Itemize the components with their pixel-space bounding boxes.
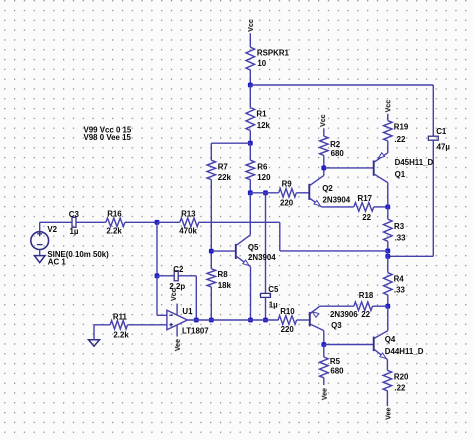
svg-text:12k: 12k <box>257 121 271 130</box>
label 12k <box>257 121 271 130</box>
label C3 <box>69 210 80 219</box>
node Q5base/R7/R8 <box>209 249 214 254</box>
label 2.2k <box>113 330 129 339</box>
label 18k <box>218 281 232 290</box>
wire <box>187 319 278 321</box>
wire <box>250 192 278 194</box>
svg-text:.33: .33 <box>394 285 406 294</box>
resistor R13 <box>157 218 280 227</box>
svg-text:R19: R19 <box>394 122 409 131</box>
svg-text:Vcc: Vcc <box>319 114 327 127</box>
svg-text:C5: C5 <box>268 285 279 294</box>
label 220 <box>280 198 294 207</box>
resistor R18 <box>354 302 388 311</box>
svg-text:Vee: Vee <box>174 339 182 351</box>
resistor R17 <box>354 203 388 212</box>
label AC 1 <box>48 257 67 266</box>
resistor R19 <box>384 121 393 141</box>
resistor R2 <box>320 136 329 168</box>
wire <box>387 251 389 256</box>
label R4 <box>394 274 405 283</box>
wire <box>324 167 374 169</box>
node R16/R13/C2 <box>155 220 160 225</box>
label C5 <box>268 285 279 294</box>
label 470k <box>179 226 197 235</box>
label R3 <box>394 222 405 231</box>
wire <box>250 84 433 86</box>
label R13 <box>181 210 196 219</box>
svg-text:22: 22 <box>362 213 371 222</box>
label R11 <box>113 312 128 321</box>
node C2/out <box>194 318 199 323</box>
wire <box>250 267 252 320</box>
svg-text:2.2k: 2.2k <box>106 226 122 235</box>
svg-text:R10: R10 <box>280 307 295 316</box>
ground (R11) <box>89 325 100 346</box>
label .22 <box>394 135 406 144</box>
node Q1c/R17/R3 <box>385 205 390 210</box>
svg-text:C2: C2 <box>173 265 184 274</box>
wire <box>156 222 158 275</box>
resistor R9 <box>279 189 310 198</box>
wire <box>280 222 388 251</box>
label LT1807 <box>182 326 209 335</box>
power flag Vcc (R2) <box>323 128 325 136</box>
node R2/Q1base/Q2coll <box>321 166 326 171</box>
svg-text:R7: R7 <box>218 162 229 171</box>
label 22 <box>362 213 371 222</box>
power flag Vee (R5): Vee <box>321 388 329 400</box>
svg-text:Vcc: Vcc <box>384 100 392 113</box>
transistor Q1 <box>374 141 388 207</box>
capacitor C1 <box>428 136 438 140</box>
svg-text:Vee: Vee <box>384 408 392 420</box>
label 120 <box>257 173 271 182</box>
svg-text:Q2: Q2 <box>322 184 333 193</box>
svg-text:R11: R11 <box>113 312 128 321</box>
power flag Vcc (speaker supply) <box>249 33 251 47</box>
svg-text:Vcc: Vcc <box>247 19 255 32</box>
label R5 <box>330 357 341 366</box>
svg-text:470k: 470k <box>179 226 197 235</box>
wire <box>388 140 434 256</box>
label 47µ <box>437 142 451 151</box>
label 2N3904 <box>248 253 276 262</box>
label 2.2p <box>169 282 185 291</box>
node R4/R18/Q4c <box>385 304 390 309</box>
label Vcc <box>319 114 327 127</box>
label Vcc <box>384 100 392 113</box>
svg-text:Q4: Q4 <box>385 335 396 344</box>
svg-text:R8: R8 <box>218 270 229 279</box>
node R3/feedback <box>385 249 390 254</box>
label 22 <box>361 310 370 319</box>
wire <box>320 305 354 307</box>
label R9 <box>282 179 293 188</box>
node R1/R6/R7 <box>248 141 253 146</box>
label Q5 <box>248 243 259 252</box>
wire <box>211 250 236 252</box>
resistor R10 <box>278 316 310 325</box>
label R2 <box>330 140 341 149</box>
transistor Q4 <box>374 306 388 359</box>
label Vee <box>174 339 182 351</box>
label 1µ <box>70 227 79 236</box>
label RSPKR1 <box>257 49 290 58</box>
svg-text:680: 680 <box>331 149 345 158</box>
svg-text:D45H11_D: D45H11_D <box>395 158 434 167</box>
node R8/out <box>209 318 214 323</box>
svg-text:R3: R3 <box>394 222 405 231</box>
label Q3 <box>331 321 342 330</box>
svg-text:Vee: Vee <box>321 388 329 400</box>
svg-text:R16: R16 <box>107 210 122 219</box>
label Vcc <box>247 19 255 32</box>
label C2 <box>173 265 184 274</box>
resistor R11 <box>94 321 167 330</box>
resistor R5 <box>320 345 329 386</box>
svg-text:C3: C3 <box>69 210 80 219</box>
resistor R3 <box>384 207 393 251</box>
node R4/C1 <box>385 254 390 259</box>
label 2N3906 <box>330 310 358 319</box>
svg-text:Q3: Q3 <box>331 321 342 330</box>
label R10 <box>280 307 295 316</box>
svg-text:680: 680 <box>330 366 344 375</box>
node C5/out <box>263 318 268 323</box>
label 2.2k <box>106 226 122 235</box>
resistor R7 <box>207 143 216 251</box>
svg-text:R9: R9 <box>282 179 293 188</box>
wire <box>211 142 250 144</box>
svg-text:R5: R5 <box>330 357 341 366</box>
label R1 <box>256 109 267 118</box>
svg-text:.22: .22 <box>394 383 406 392</box>
svg-text:120: 120 <box>257 173 271 182</box>
label Q1 <box>395 170 406 179</box>
label R20 <box>394 372 409 381</box>
label R6 <box>257 162 268 171</box>
wire <box>265 297 267 320</box>
node speaker-top junction <box>248 83 253 88</box>
node Q5e/out <box>248 318 253 323</box>
label 22k <box>218 173 232 182</box>
svg-text:C1: C1 <box>436 127 447 136</box>
svg-text:47µ: 47µ <box>437 142 451 151</box>
svg-text:R13: R13 <box>181 210 196 219</box>
svg-text:R18: R18 <box>359 291 374 300</box>
svg-text:22: 22 <box>361 310 370 319</box>
label U1 <box>182 307 193 316</box>
power flag Vcc (R19) <box>387 114 389 121</box>
svg-text:22k: 22k <box>218 173 232 182</box>
svg-text:R1: R1 <box>256 109 267 118</box>
transistor Q3 <box>310 306 324 344</box>
label R8 <box>218 270 229 279</box>
svg-text:2N3906: 2N3906 <box>330 310 358 319</box>
label 10 <box>257 59 266 68</box>
svg-text:Vcc: Vcc <box>170 288 178 301</box>
wire <box>195 276 197 320</box>
label 680 <box>331 149 345 158</box>
spice directive text: V98 0 Vee 15 <box>84 133 132 142</box>
node R6/R9/C5 <box>248 190 268 195</box>
wire <box>40 221 72 223</box>
wire <box>265 193 267 294</box>
svg-text:D44H11_D: D44H11_D <box>385 347 424 356</box>
resistor R8 <box>207 251 216 320</box>
power flag Vee (R20): Vee <box>384 408 392 420</box>
svg-text:LT1807: LT1807 <box>182 326 209 335</box>
svg-text:.33: .33 <box>395 233 407 242</box>
svg-text:AC 1: AC 1 <box>48 257 67 266</box>
label V2 <box>47 225 57 234</box>
label R7 <box>218 162 229 171</box>
svg-text:1µ: 1µ <box>269 301 278 310</box>
ground <box>34 250 45 263</box>
resistor R1 <box>246 85 255 143</box>
svg-text:R17: R17 <box>358 194 373 203</box>
label SINE(0 10m 50k) <box>47 250 109 259</box>
label 220 <box>281 325 295 334</box>
svg-text:2N3904: 2N3904 <box>248 253 276 262</box>
transistor Q5 <box>236 193 251 267</box>
label .33 <box>394 285 406 294</box>
resistor R16 <box>106 218 157 227</box>
svg-text:10: 10 <box>257 59 266 68</box>
label .22 <box>394 383 406 392</box>
label .33 <box>395 233 407 242</box>
svg-text:RSPKR1: RSPKR1 <box>257 49 290 58</box>
svg-text:18k: 18k <box>218 281 232 290</box>
svg-text:Q1: Q1 <box>395 170 406 179</box>
label R19 <box>394 122 409 131</box>
svg-text:Q5: Q5 <box>248 243 259 252</box>
transistor Q2 <box>309 168 324 207</box>
label Q4 <box>385 335 396 344</box>
svg-text:R2: R2 <box>330 140 341 149</box>
label Q2 <box>322 184 333 193</box>
label R17 <box>358 194 373 203</box>
wire <box>432 85 434 136</box>
label Vcc <box>170 288 178 301</box>
svg-text:.22: .22 <box>394 135 406 144</box>
resistor RSPKR1 <box>246 47 255 85</box>
svg-text:1µ: 1µ <box>70 227 79 236</box>
label 680 <box>330 366 344 375</box>
wire <box>324 344 374 346</box>
wire <box>322 206 354 208</box>
capacitor C5 <box>261 293 271 297</box>
label R18 <box>359 291 374 300</box>
svg-text:V2: V2 <box>47 225 57 234</box>
capacitor C3 <box>72 217 76 227</box>
svg-text:R20: R20 <box>394 372 409 381</box>
label 2N3904 <box>323 196 351 205</box>
svg-text:2N3904: 2N3904 <box>323 196 351 205</box>
node Q3c/R5/Q4b <box>321 342 326 347</box>
wire <box>157 276 167 316</box>
spice directive text: V99 Vcc 0 15 <box>84 125 132 134</box>
svg-text:V98 0 Vee 15: V98 0 Vee 15 <box>84 133 132 142</box>
label D44H11_D <box>385 347 424 356</box>
resistor R4 <box>384 256 393 306</box>
op-amp U1 <box>167 304 188 337</box>
svg-text:R6: R6 <box>257 162 268 171</box>
svg-text:220: 220 <box>280 198 294 207</box>
label D45H11_D <box>395 158 434 167</box>
svg-text:220: 220 <box>281 325 295 334</box>
capacitor C2 <box>157 271 196 281</box>
label C1 <box>436 127 447 136</box>
resistor R20 <box>383 360 392 407</box>
node C2/inv-input <box>155 273 160 278</box>
label R16 <box>107 210 122 219</box>
label 1µ <box>269 301 278 310</box>
svg-text:U1: U1 <box>182 307 193 316</box>
voltage source V2 <box>31 222 49 249</box>
svg-text:2.2k: 2.2k <box>113 330 129 339</box>
svg-text:R4: R4 <box>394 274 405 283</box>
resistor R6 <box>246 143 255 193</box>
wire <box>76 221 106 223</box>
